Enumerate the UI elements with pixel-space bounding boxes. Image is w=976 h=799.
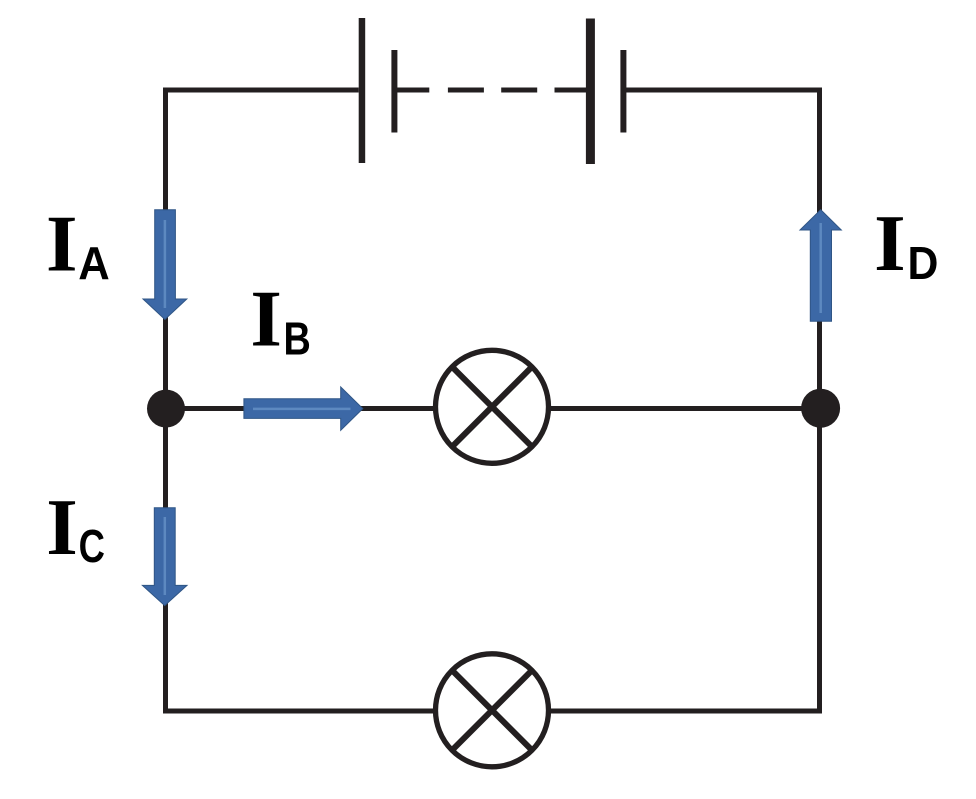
cell 1 short plate [391, 50, 397, 133]
label IC [46, 482, 105, 572]
label IA [46, 199, 110, 289]
current arrow IC (down, lower-left branch) [142, 508, 187, 606]
wire: top-right + right side + bottom-right segment [548, 90, 820, 711]
svg-text:A: A [78, 237, 110, 289]
label IB [250, 274, 310, 365]
svg-text:I: I [874, 198, 906, 288]
wire: left side + bottom-left segment [166, 90, 437, 711]
svg-text:B: B [284, 313, 311, 365]
dashed link (omitted cells) [395, 88, 591, 93]
cell 1 long plate [359, 18, 366, 163]
lamp L2 (bottom branch) [436, 654, 549, 767]
cell 2 short plate [620, 50, 626, 133]
current arrow ID (up, right branch) [800, 210, 841, 322]
junction node A (left) [147, 390, 185, 428]
junction node B (right) [801, 389, 840, 428]
svg-text:D: D [908, 237, 939, 289]
wire: middle branch left segment (node A to lamp) [166, 406, 436, 411]
wire: middle branch right segment (lamp to node B) [548, 406, 820, 411]
label ID [874, 198, 938, 289]
cell 2 long plate [586, 19, 595, 165]
current arrow IA (down, left branch) [143, 210, 187, 320]
battery (multi-cell, dashed omitted cells) [359, 18, 627, 164]
svg-text:I: I [250, 274, 282, 364]
svg-text:C: C [79, 520, 105, 572]
lamp L1 (middle branch) [436, 350, 549, 463]
svg-text:I: I [46, 199, 78, 289]
current arrow IB (right, middle branch) [244, 387, 363, 430]
svg-text:I: I [46, 482, 78, 572]
